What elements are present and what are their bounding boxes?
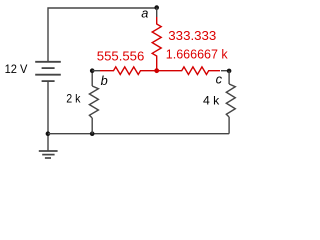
- node c: [227, 69, 232, 74]
- wire node b stub and lead of 2k: [91, 71, 93, 86]
- wire black stub right of node b: [92, 70, 100, 72]
- resistor R 4 k vertical zigzag: [226, 84, 235, 117]
- junction dot bottom-left: [46, 131, 51, 136]
- svg-text:12 V: 12 V: [5, 62, 28, 76]
- svg-text:4 k: 4 k: [203, 94, 220, 108]
- wire black stub below node a: [156, 8, 158, 17]
- svg-text:c: c: [216, 71, 223, 86]
- wire 4k bottom lead to bottom rail: [228, 117, 230, 134]
- wire top: node to node a: [48, 8, 157, 62]
- svg-text:333.333: 333.333: [168, 28, 216, 43]
- svg-text:555.556: 555.556: [97, 49, 145, 64]
- svg-text:1.666667 k: 1.666667 k: [166, 47, 228, 62]
- wire battery bottom to ground/bottom rail: [47, 81, 49, 151]
- junction node (red): [154, 68, 159, 73]
- node b: [90, 68, 95, 73]
- resistor R 1.666667 k horizontal (red) with leads: [157, 67, 220, 75]
- voltage source V1 12 V battery plates: [35, 62, 61, 81]
- resistor R 333.333 vertical (red) with leads: [152, 17, 161, 71]
- wire 2k bottom lead: [91, 118, 93, 134]
- resistor R 2 k vertical zigzag: [89, 86, 98, 118]
- resistor R 555.556 horizontal (red) with leads: [100, 67, 157, 75]
- wire bottom rail: [48, 133, 229, 135]
- ground: [39, 151, 58, 158]
- junction dot bottom of R 2k: [90, 131, 95, 136]
- svg-text:a: a: [141, 6, 148, 21]
- wire black stub left of node c: [221, 70, 229, 72]
- svg-text:b: b: [101, 73, 108, 88]
- svg-text:2 k: 2 k: [66, 92, 81, 106]
- node a: [154, 5, 159, 10]
- wire node c down to 4k: [228, 71, 230, 84]
